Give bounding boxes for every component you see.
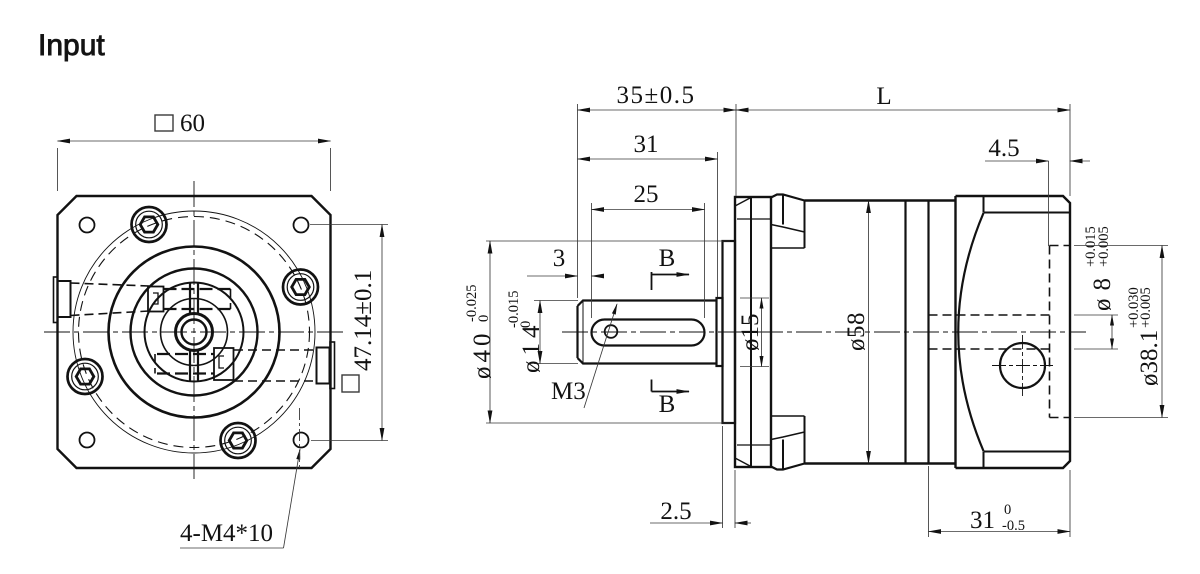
dim 4.5 right piece: [1070, 160, 1090, 162]
section B upper marker: [652, 272, 690, 290]
dim 2.5 right piece: [735, 522, 751, 524]
dim d38.1 extension lines: [1074, 246, 1168, 418]
svg-text:ø8: ø8: [1089, 270, 1116, 311]
label 4-M4*10 leader: [284, 449, 301, 548]
dim 3 left piece: [527, 275, 578, 277]
dim square60 line: [58, 140, 331, 142]
svg-text:47.14±0.1: 47.14±0.1: [350, 270, 377, 371]
corner hole bottom-right: [294, 433, 309, 448]
output section left edge: [954, 196, 956, 468]
dim 4.5 left piece: [985, 160, 1049, 162]
dim 47.14 square symbol: [342, 375, 359, 392]
dim 2.5 left piece: [650, 522, 723, 524]
label M3 leader: [584, 304, 617, 408]
ext line keyway-left: [591, 203, 593, 318]
body joint line 1: [904, 201, 906, 464]
svg-text:-0.5: -0.5: [1002, 518, 1025, 534]
svg-text:2.5: 2.5: [660, 498, 691, 525]
hidden bore d38.1 dashed: [1050, 246, 1071, 418]
svg-text:4.5: 4.5: [988, 135, 1019, 162]
corner hole bottom-left: [80, 433, 95, 448]
ext line right-edge: [1069, 104, 1071, 196]
socket screw bottom: [221, 423, 256, 458]
keyway slot: [592, 320, 705, 346]
inner circle d15: [161, 299, 228, 366]
svg-text:M3: M3: [551, 378, 586, 405]
hub band edges upper: [164, 289, 231, 309]
svg-text:ø40: ø40: [469, 330, 496, 380]
svg-text:35±0.5: 35±0.5: [617, 82, 696, 109]
dim d8 line: [1111, 315, 1113, 349]
M4 hole centerline: [299, 408, 301, 470]
ext line keyway-right: [704, 203, 706, 318]
dim d14 extension lines: [534, 301, 578, 364]
svg-text:ø15: ø15: [737, 314, 764, 352]
svg-text:25: 25: [634, 181, 659, 208]
flange plate: [735, 197, 771, 467]
small mark lower block: [219, 356, 224, 368]
dim 25 line: [592, 209, 705, 211]
svg-text:4-M4*10: 4-M4*10: [180, 520, 273, 547]
flange corner chamfer diagonals: [735, 198, 751, 467]
clamp hub keyway dashed lower: [154, 354, 156, 374]
M3 tapped hole: [605, 325, 618, 338]
dim 47.14 line: [381, 225, 383, 441]
dim d8 extension lines: [1074, 315, 1118, 349]
ring top vertical: [782, 195, 784, 225]
output inner verticals: [983, 196, 985, 468]
flange chamfer line top: [737, 218, 771, 220]
dim d15 line: [761, 298, 763, 367]
body joint line 2: [927, 201, 929, 464]
shaft chamfer line: [582, 301, 584, 364]
section B lower marker: [652, 380, 690, 392]
dim 35 line: [578, 109, 737, 111]
output section outline: [956, 196, 1071, 468]
output inner line bottom: [984, 451, 1071, 453]
ring top step lines: [771, 225, 805, 233]
ext line shaft-left: [577, 104, 579, 298]
socket screw top: [132, 207, 167, 242]
dim 31 line: [578, 158, 718, 160]
flange inner joint line: [750, 197, 752, 467]
dim square60 extension lines: [58, 148, 331, 191]
clamp hub block lower-right: [214, 348, 234, 380]
hidden dashed lines right pair: [234, 350, 317, 381]
ring bottom step lines: [771, 432, 805, 440]
svg-text:ø38.1: ø38.1: [1136, 330, 1163, 386]
clamp slit lower: [190, 351, 198, 383]
svg-text:B: B: [659, 391, 676, 418]
thin boss circle d56: [73, 211, 315, 453]
svg-text:ø58: ø58: [843, 312, 870, 351]
main centerline: [562, 331, 1086, 333]
dim 31tol ext lines: [929, 466, 1071, 537]
clamp hub keyway dashed upper: [230, 289, 232, 309]
hub band edges lower: [157, 354, 214, 374]
socket screw right: [283, 270, 318, 305]
body front edge top: [804, 201, 806, 249]
bore outer circle: [176, 314, 213, 351]
hole crosshair: [992, 335, 1053, 396]
inner circle d28: [131, 269, 258, 396]
small mark upper block: [153, 293, 158, 304]
flange outline square with chamfered corners: [58, 196, 331, 468]
input shaft outline: [578, 301, 717, 364]
dim d58 line: [868, 201, 870, 464]
svg-text:31: 31: [634, 131, 659, 158]
svg-text:31: 31: [970, 507, 995, 534]
collar d15: [717, 298, 723, 366]
svg-text:B: B: [659, 245, 676, 272]
body front edge bottom: [804, 416, 806, 464]
ext line flange-face: [735, 104, 737, 196]
right edge tab: [317, 342, 335, 389]
dim d38.1 line: [1161, 246, 1163, 418]
label 4-M4*10 underline: [180, 547, 284, 549]
ring top profile: [771, 195, 805, 201]
svg-text:3: 3: [553, 245, 566, 272]
svg-text:-0.015: -0.015: [506, 291, 522, 328]
pilot circle d40: [109, 247, 280, 418]
body top line: [805, 199, 956, 201]
ring top inner line: [771, 247, 805, 249]
output inner line top: [984, 212, 1071, 214]
socket screw left: [68, 359, 103, 394]
flange chamfer line bottom: [737, 444, 771, 446]
svg-text:L: L: [876, 83, 891, 110]
svg-text:60: 60: [180, 110, 205, 137]
body bottom line: [805, 462, 956, 464]
svg-text:+0.005: +0.005: [1096, 226, 1112, 267]
horizontal centerline: [44, 331, 344, 333]
ext line shaft-end: [717, 152, 719, 297]
ring bottom inner line: [771, 415, 805, 417]
dim 4.5 ext: [1048, 161, 1050, 246]
dim 47.14 extension lines: [310, 225, 388, 441]
hidden bore d8 dashed: [929, 315, 1050, 349]
dim 31tol line: [929, 531, 1071, 533]
dim d40 line: [489, 241, 491, 423]
corner hole top-left: [80, 218, 95, 233]
dim 2.5 ext lines: [723, 426, 736, 528]
hidden dashed lines left pair: [71, 283, 150, 316]
left edge tab: [54, 277, 71, 323]
ring bottom vertical: [782, 440, 784, 470]
corner hole top-right: [294, 218, 309, 233]
output curved face: [958, 213, 983, 451]
pilot boss d40: [723, 241, 736, 423]
svg-text:0: 0: [1004, 502, 1011, 518]
dim 3 right piece: [592, 275, 605, 277]
inner circle d22: [145, 283, 244, 382]
dim d14 line: [539, 301, 541, 364]
clamp slit upper: [190, 282, 198, 314]
dim d15 extension stubs: [740, 298, 769, 367]
ring bottom profile: [771, 464, 805, 470]
svg-text:-0.025: -0.025: [464, 285, 480, 322]
svg-text:Input: Input: [38, 29, 105, 62]
output face hole: [1000, 343, 1045, 388]
dim square60 symbol: [155, 115, 173, 131]
dim L line: [736, 109, 1070, 111]
svg-text:+0.005: +0.005: [1138, 287, 1154, 328]
dashed bolt circle: [79, 217, 310, 448]
dim d40 extension lines: [486, 241, 730, 423]
bore inner circle: [182, 320, 207, 345]
clamp hub block upper-left: [148, 287, 164, 312]
vertical centerline: [193, 181, 195, 479]
